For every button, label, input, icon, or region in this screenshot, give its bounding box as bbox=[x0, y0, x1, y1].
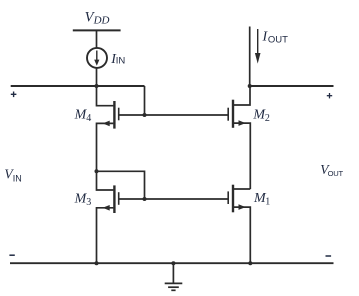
M2 gate bar bbox=[227, 108, 229, 121]
current source IIN bbox=[87, 48, 107, 68]
wire M3 source with arrow bbox=[97, 208, 114, 263]
wire M4 source with arrow bbox=[97, 123, 114, 171]
label M4 bbox=[74, 108, 92, 125]
transistor M4 bbox=[97, 86, 119, 171]
svg-text:IN: IN bbox=[13, 173, 22, 183]
transistor M3 bbox=[97, 171, 119, 263]
junction input rail / IIN bbox=[95, 84, 99, 88]
M4 gate bar bbox=[118, 108, 120, 121]
M1 gate bar bbox=[227, 191, 229, 204]
power VDD supply bar bbox=[73, 29, 121, 31]
svg-text:IN: IN bbox=[116, 56, 126, 67]
junction node A (M4 source / M3 drain) bbox=[95, 169, 99, 173]
svg-text:OUT: OUT bbox=[268, 34, 288, 45]
junction bottom rail / M1 source bbox=[248, 261, 252, 265]
label VOUT bbox=[320, 162, 343, 178]
wire gate bus M4 to M2 bbox=[119, 114, 228, 116]
wire bottom - rail bbox=[10, 262, 334, 264]
ground bbox=[165, 263, 183, 290]
wire IOUT lead bbox=[249, 27, 251, 87]
label IIN bbox=[110, 52, 125, 67]
wire M1 drain bbox=[234, 188, 250, 190]
svg-text:2: 2 bbox=[265, 113, 270, 124]
wire M4 drain bbox=[97, 86, 114, 106]
label + (right) bbox=[327, 93, 332, 98]
M2 channel bar bbox=[232, 100, 234, 128]
wire M3 drain bbox=[97, 171, 114, 190]
wire M2 source with arrow bbox=[234, 123, 250, 189]
svg-text:4: 4 bbox=[86, 113, 91, 124]
wire M2 drain bbox=[234, 86, 250, 105]
M3 channel bar bbox=[113, 185, 115, 213]
wire node A to lower gate bus bbox=[97, 171, 145, 199]
label + (left) bbox=[11, 92, 17, 98]
label M2 bbox=[252, 108, 270, 124]
svg-text:1: 1 bbox=[265, 197, 270, 208]
M4 channel bar bbox=[113, 101, 115, 129]
label - (right) bbox=[326, 255, 332, 257]
wire VDD bar to current source bbox=[96, 30, 98, 47]
label M3 bbox=[74, 192, 92, 209]
junction bottom rail / M3 source bbox=[95, 261, 99, 265]
label VIN bbox=[4, 166, 21, 183]
label M1 bbox=[253, 191, 270, 208]
label VDD bbox=[85, 9, 110, 26]
arrow IOUT current direction bbox=[255, 29, 261, 64]
transistor M1 bbox=[228, 185, 250, 264]
label IOUT bbox=[262, 30, 289, 46]
M1 channel bar bbox=[232, 185, 234, 213]
wire rail down to gate bus bbox=[144, 86, 146, 115]
wire gate bus M3 to M1 bbox=[119, 198, 228, 200]
wire M1 source with arrow bbox=[234, 207, 250, 263]
junction gate bus node bbox=[143, 113, 147, 117]
label - (left) bbox=[9, 254, 14, 256]
M3 gate bar bbox=[118, 192, 120, 205]
junction output rail / IOUT bbox=[248, 84, 252, 88]
wire right + rail bbox=[250, 85, 334, 87]
wire current source to input rail bbox=[96, 68, 98, 86]
svg-text:OUT: OUT bbox=[328, 169, 344, 178]
wire left + rail bbox=[11, 85, 145, 87]
svg-text:3: 3 bbox=[86, 197, 91, 208]
junction bottom rail / ground bbox=[171, 261, 175, 265]
svg-text:DD: DD bbox=[93, 15, 110, 27]
junction lower gate bus node bbox=[143, 197, 147, 201]
transistor M2 bbox=[228, 86, 250, 189]
